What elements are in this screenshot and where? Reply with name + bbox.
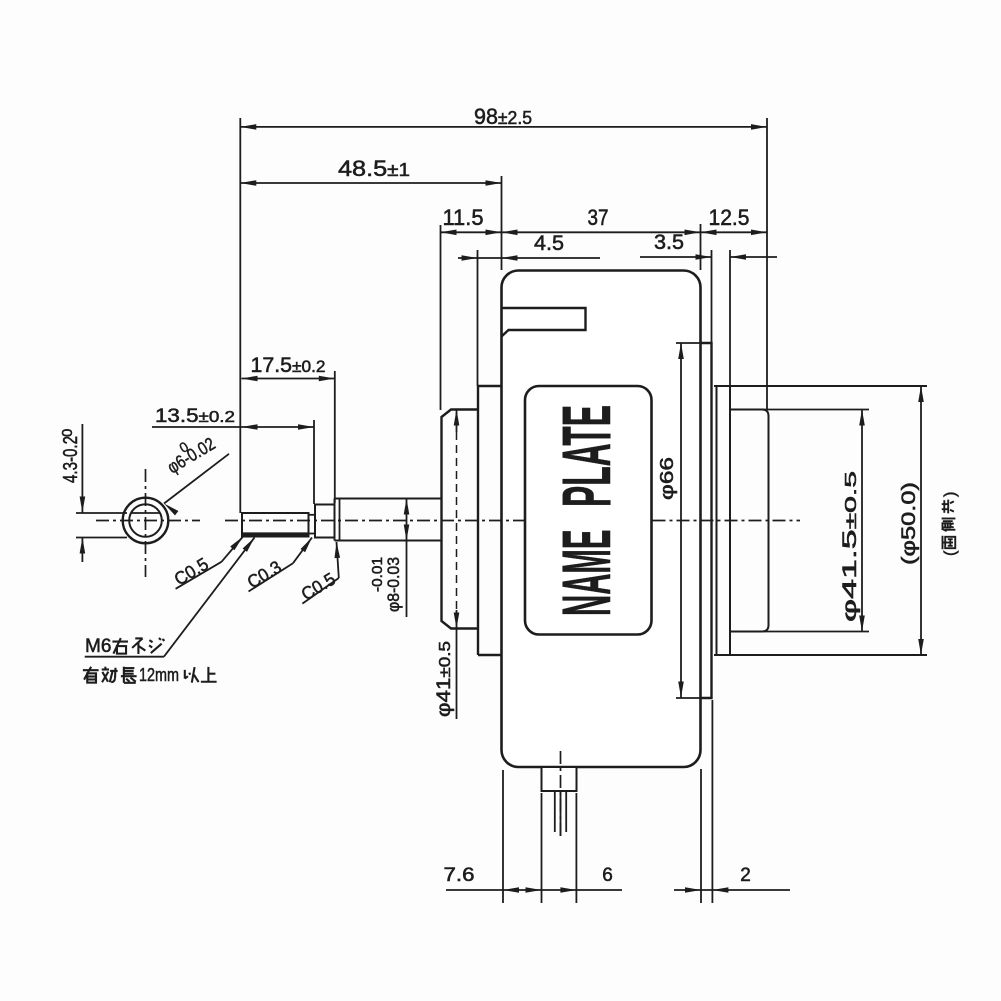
svg-text:(φ50.0): (φ50.0) <box>899 482 920 565</box>
svg-text:-0.01: -0.01 <box>369 557 386 592</box>
svg-text:M6: M6 <box>85 636 111 657</box>
svg-text:(: ( <box>942 550 959 556</box>
svg-text:12mm: 12mm <box>139 665 179 685</box>
svg-text:11.5: 11.5 <box>443 205 484 230</box>
svg-text:13.5±0.2: 13.5±0.2 <box>155 406 235 427</box>
svg-text:12.5: 12.5 <box>709 205 750 230</box>
svg-text:φ66: φ66 <box>657 457 677 500</box>
svg-text:0: 0 <box>59 429 76 437</box>
svg-text:98±2.5: 98±2.5 <box>474 104 532 129</box>
svg-text:6: 6 <box>602 865 613 886</box>
svg-text:NAME: NAME <box>548 530 625 617</box>
svg-text:17.5±0.2: 17.5±0.2 <box>251 354 326 377</box>
svg-text:2: 2 <box>740 865 751 886</box>
svg-text:37: 37 <box>588 205 609 230</box>
svg-text:): ) <box>942 492 959 497</box>
svg-text:φ41.5±0.5: φ41.5±0.5 <box>840 471 861 622</box>
svg-text:4.5: 4.5 <box>534 232 564 255</box>
svg-text:3.5: 3.5 <box>654 231 684 254</box>
svg-text:φ41±0.5: φ41±0.5 <box>434 641 455 717</box>
svg-text:48.5±1: 48.5±1 <box>338 156 410 181</box>
svg-text:PLATE: PLATE <box>548 405 625 507</box>
svg-text:4.3-0.2: 4.3-0.2 <box>60 436 82 483</box>
svg-text:φ8-0.03: φ8-0.03 <box>384 557 403 612</box>
svg-text:7.6: 7.6 <box>444 865 475 886</box>
